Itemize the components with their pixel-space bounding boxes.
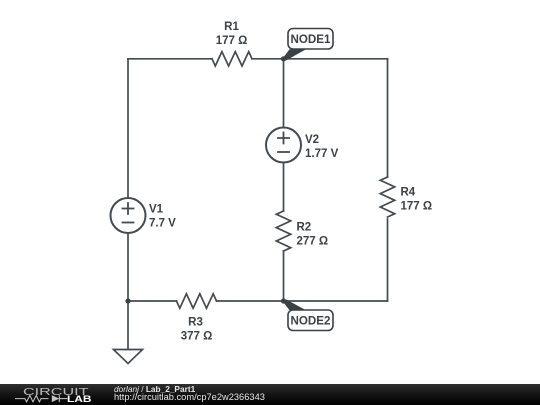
svg-text:177 Ω: 177 Ω: [401, 201, 433, 213]
svg-text:R3: R3: [188, 317, 203, 329]
svg-text:1.77 V: 1.77 V: [305, 148, 339, 160]
svg-text:377 Ω: 377 Ω: [181, 331, 213, 343]
svg-text:V1: V1: [149, 204, 164, 216]
svg-text:7.7 V: 7.7 V: [149, 217, 176, 229]
svg-text:R4: R4: [401, 187, 416, 199]
svg-text:R2: R2: [297, 222, 312, 234]
svg-text:277 Ω: 277 Ω: [297, 236, 329, 248]
svg-text:LAB: LAB: [67, 394, 92, 404]
svg-text:R1: R1: [224, 21, 239, 33]
svg-text:177 Ω: 177 Ω: [216, 35, 248, 47]
svg-text:NODE1: NODE1: [291, 33, 331, 46]
svg-text:NODE2: NODE2: [291, 315, 331, 328]
svg-text:V2: V2: [305, 134, 319, 146]
